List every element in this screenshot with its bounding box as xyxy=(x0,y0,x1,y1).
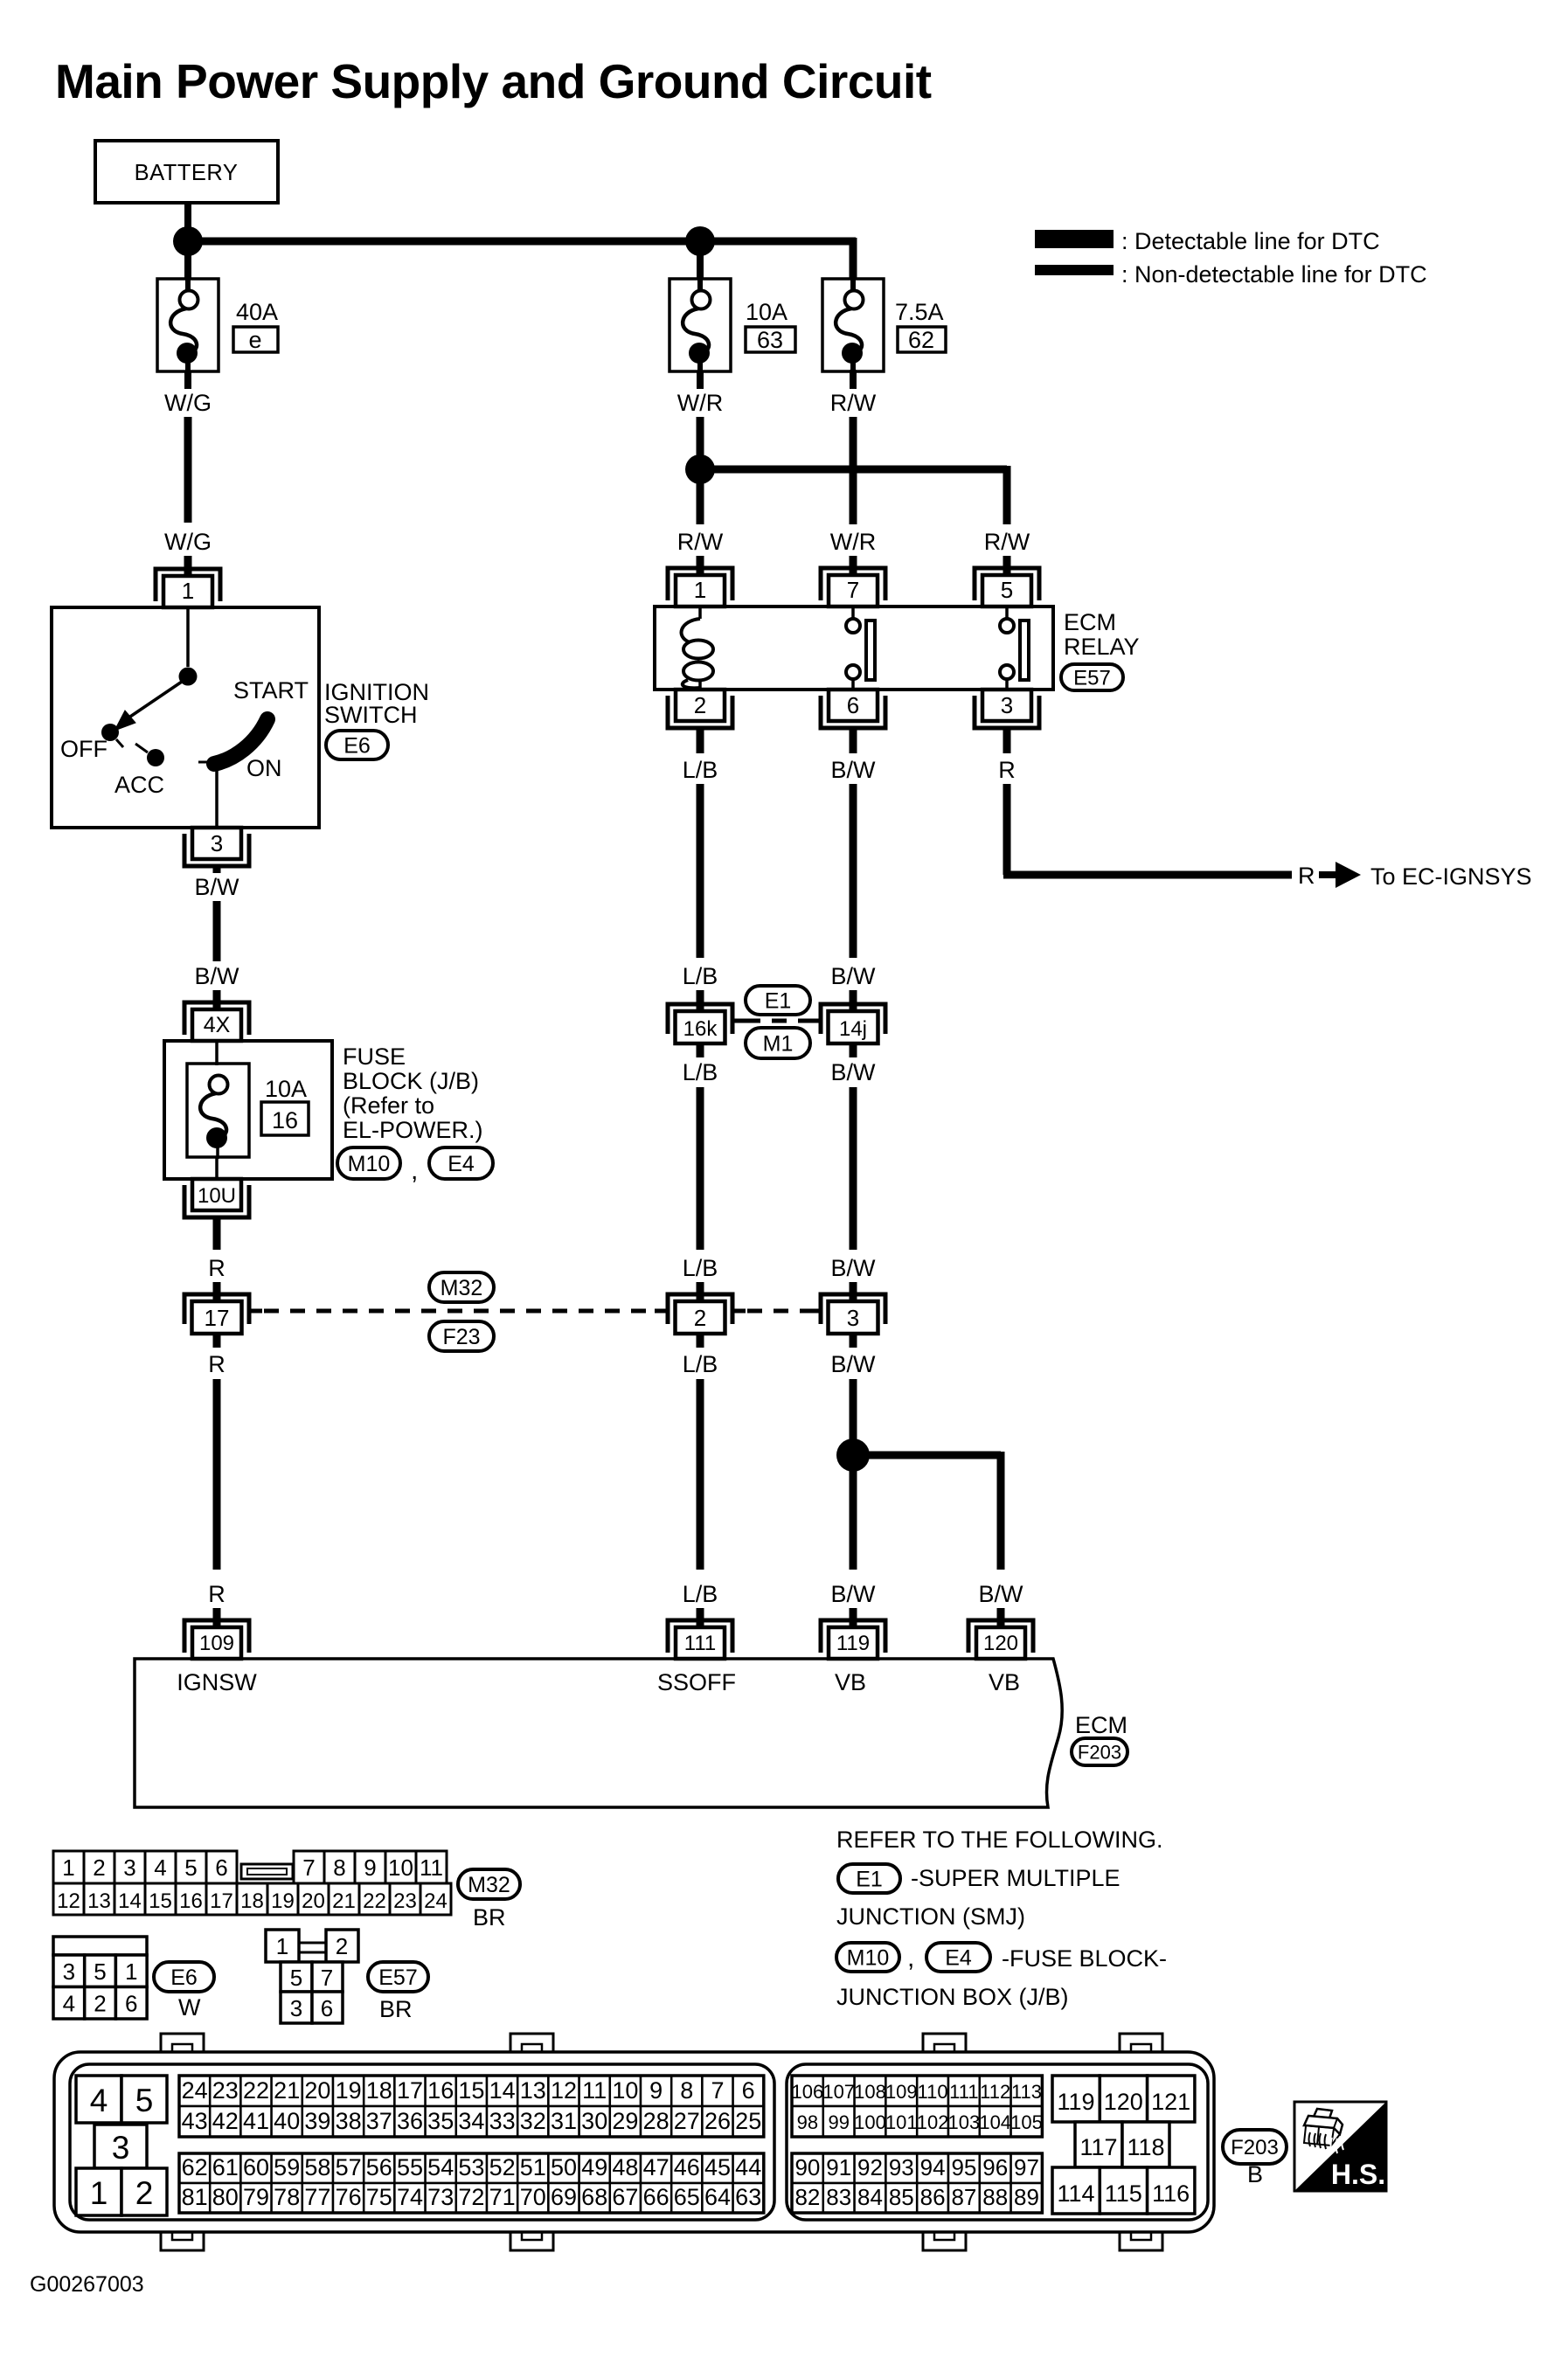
svg-text:91: 91 xyxy=(826,2154,851,2180)
legend detectable line sample xyxy=(1035,228,1380,254)
svg-text:EL-POWER.): EL-POWER.) xyxy=(343,1117,483,1143)
wire 14j out xyxy=(850,1043,857,1057)
svg-text:40: 40 xyxy=(274,2108,300,2134)
wire 10U out xyxy=(213,1217,221,1250)
node junction W/R R/W xyxy=(685,454,715,484)
svg-text:21: 21 xyxy=(332,1889,356,1913)
svg-text:101: 101 xyxy=(885,2111,918,2133)
svg-text:16: 16 xyxy=(427,2077,454,2104)
node bus junction to 10A fuse xyxy=(685,226,715,256)
svg-text:4: 4 xyxy=(90,2083,108,2118)
connector ECM pin 119 xyxy=(821,1620,885,1659)
svg-text:L/B: L/B xyxy=(683,1255,718,1281)
svg-text:68: 68 xyxy=(581,2184,607,2210)
svg-text:E1: E1 xyxy=(765,989,792,1014)
svg-text:OFF: OFF xyxy=(60,736,108,762)
wire W/G long xyxy=(184,417,192,523)
ignition common contact dot xyxy=(179,668,198,686)
svg-text:6: 6 xyxy=(847,692,859,718)
svg-text:7: 7 xyxy=(302,1854,315,1881)
svg-text:6: 6 xyxy=(742,2077,755,2104)
svg-text:77: 77 xyxy=(304,2184,330,2210)
connector SMJ 14j xyxy=(808,1004,885,1043)
wire stub to relay pin 7 xyxy=(850,556,857,579)
svg-text:65: 65 xyxy=(674,2184,700,2210)
wire relay pin6 out xyxy=(850,728,857,753)
svg-text:G00267003: G00267003 xyxy=(30,2272,144,2297)
svg-text:82: 82 xyxy=(794,2184,820,2210)
svg-text:37: 37 xyxy=(366,2108,392,2134)
svg-text:10A: 10A xyxy=(746,299,787,325)
svg-text:52: 52 xyxy=(489,2154,516,2180)
svg-text:IGNSW: IGNSW xyxy=(177,1669,257,1695)
svg-text:102: 102 xyxy=(917,2111,949,2133)
node B/W branch junction xyxy=(836,1438,870,1472)
svg-text:5: 5 xyxy=(1001,577,1013,603)
wire stub into 120 xyxy=(997,1608,1005,1629)
svg-text:84: 84 xyxy=(857,2184,883,2210)
svg-text:5: 5 xyxy=(290,1965,302,1991)
svg-text:6: 6 xyxy=(125,1991,137,2017)
svg-text:29: 29 xyxy=(612,2108,638,2134)
ECM connector main grid rows 24-6 43-25 xyxy=(179,2076,764,2137)
svg-text:13: 13 xyxy=(520,2077,546,2104)
svg-text:61: 61 xyxy=(212,2154,239,2180)
svg-text:19: 19 xyxy=(271,1889,295,1913)
connector ref oval F203 xyxy=(1072,1738,1127,1765)
svg-text:117: 117 xyxy=(1079,2134,1117,2160)
wire branch corner down xyxy=(1003,466,1011,524)
connector relay pin 3 xyxy=(975,690,1039,728)
svg-text:L/B: L/B xyxy=(683,757,718,783)
wire junction down xyxy=(697,480,704,524)
svg-text:E57: E57 xyxy=(378,1965,417,1990)
connector relay pin 2 xyxy=(668,690,732,728)
svg-text:BR: BR xyxy=(379,1996,413,2022)
svg-text:9: 9 xyxy=(364,1854,376,1881)
svg-text:2: 2 xyxy=(94,1991,106,2017)
svg-text:W/R: W/R xyxy=(677,390,723,416)
connector ECM pin 109 xyxy=(184,1620,249,1659)
svg-text:69: 69 xyxy=(551,2184,577,2210)
svg-text:62: 62 xyxy=(908,327,934,353)
svg-text:VB: VB xyxy=(835,1669,866,1695)
svg-text:-FUSE BLOCK-: -FUSE BLOCK- xyxy=(1002,1945,1167,1972)
svg-text:11: 11 xyxy=(420,1854,443,1881)
fuse 10A 63 xyxy=(670,277,731,373)
wire branch to VB 120 xyxy=(853,1452,1001,1459)
dashed line 2 to 3 xyxy=(747,1309,809,1314)
svg-text:8: 8 xyxy=(333,1854,345,1881)
connector ref oval M10 note xyxy=(836,1943,899,1972)
ignition ACC contact xyxy=(135,744,148,752)
ignition switch E6 box xyxy=(52,607,319,828)
svg-text:16: 16 xyxy=(179,1889,203,1913)
svg-text:17: 17 xyxy=(205,1305,230,1331)
svg-text:1: 1 xyxy=(125,1958,137,1985)
svg-text:19: 19 xyxy=(336,2077,362,2104)
wire to junction xyxy=(697,417,704,459)
svg-text:59: 59 xyxy=(274,2154,300,2180)
svg-text:R: R xyxy=(208,1351,225,1377)
svg-text:1: 1 xyxy=(62,1854,74,1881)
svg-text:3: 3 xyxy=(123,1854,135,1881)
wire R horizontal to EC-IGNSYS xyxy=(1003,871,1292,879)
wire 16k out xyxy=(697,1043,704,1057)
svg-text:5: 5 xyxy=(135,2083,154,2118)
svg-text:3: 3 xyxy=(112,2130,130,2166)
svg-text:3: 3 xyxy=(211,830,223,856)
ignition ON contact arc xyxy=(214,719,267,764)
node battery junction xyxy=(173,226,203,256)
svg-text:B/W: B/W xyxy=(831,757,877,783)
connector pin 1 ignition switch xyxy=(156,569,220,607)
svg-text:36: 36 xyxy=(397,2108,423,2134)
svg-text:30: 30 xyxy=(581,2108,607,2134)
svg-text:39: 39 xyxy=(304,2108,330,2134)
connector ECM pin 111 xyxy=(668,1620,732,1659)
connector ref oval E1 xyxy=(746,986,810,1015)
dashed SMJ line xyxy=(746,1019,811,1023)
svg-text:BLOCK (J/B): BLOCK (J/B) xyxy=(343,1068,479,1094)
connector ref oval M10 xyxy=(337,1147,400,1179)
svg-text:BR: BR xyxy=(473,1904,506,1931)
svg-text:76: 76 xyxy=(336,2184,362,2210)
ECM F203 box xyxy=(135,1659,1062,1807)
wire relay pin3 out xyxy=(1003,728,1011,753)
svg-text:2: 2 xyxy=(135,2175,154,2211)
svg-text:14: 14 xyxy=(118,1889,142,1913)
connector ref oval E6 face xyxy=(154,1962,214,1992)
wire 10A fuse out xyxy=(697,371,704,389)
svg-text:9: 9 xyxy=(649,2077,663,2104)
H.S. inspection mark xyxy=(1294,2102,1386,2191)
svg-text:118: 118 xyxy=(1127,2134,1164,2160)
svg-text:10A: 10A xyxy=(265,1076,307,1102)
ECM connector shell tabs xyxy=(161,2034,1162,2250)
wire 17 out xyxy=(213,1333,221,1348)
svg-text:15: 15 xyxy=(458,2077,484,2104)
ECM connector cells 114 115 116 xyxy=(1052,2167,1195,2214)
connector ref oval F23 xyxy=(429,1321,494,1351)
svg-text:M1: M1 xyxy=(763,1032,794,1057)
wire B/W left long xyxy=(213,901,221,961)
svg-text:L/B: L/B xyxy=(683,1059,718,1085)
svg-text:78: 78 xyxy=(274,2184,300,2210)
connector ref oval M32 face xyxy=(458,1869,520,1899)
wire B/W long to ECM xyxy=(850,1379,857,1570)
svg-text:R: R xyxy=(208,1255,225,1281)
svg-text:,: , xyxy=(411,1156,418,1185)
ECM connector small grid rows 90-97 82-89 xyxy=(792,2153,1042,2213)
svg-text:86: 86 xyxy=(920,2184,946,2210)
svg-text:71: 71 xyxy=(489,2184,516,2210)
svg-text:79: 79 xyxy=(243,2184,269,2210)
svg-text:100: 100 xyxy=(854,2111,886,2133)
connector ref oval E57 xyxy=(1061,664,1123,690)
svg-text:57: 57 xyxy=(336,2154,362,2180)
wire relay pin2 out xyxy=(697,728,704,753)
connector ECM pin 120 xyxy=(968,1620,1033,1659)
svg-text:51: 51 xyxy=(520,2154,546,2180)
svg-text:12: 12 xyxy=(57,1889,80,1913)
wire battery dot to 40A fuse xyxy=(184,241,191,279)
svg-text:24: 24 xyxy=(424,1889,448,1913)
connector relay pin 5 xyxy=(975,568,1039,607)
wire stub into 111 xyxy=(697,1608,704,1629)
svg-text:121: 121 xyxy=(1151,2089,1190,2115)
svg-text:W/G: W/G xyxy=(164,529,212,555)
svg-text:,: , xyxy=(907,1944,914,1972)
svg-text:7.5A: 7.5A xyxy=(895,299,944,325)
svg-text:1: 1 xyxy=(694,577,706,603)
svg-text:44: 44 xyxy=(735,2154,761,2180)
svg-text:REFER TO THE FOLLOWING.: REFER TO THE FOLLOWING. xyxy=(836,1827,1163,1853)
svg-text:R: R xyxy=(998,757,1016,783)
wire stub into conn 2 xyxy=(697,1282,704,1304)
svg-text:10: 10 xyxy=(612,2077,638,2104)
svg-text:105: 105 xyxy=(1010,2111,1043,2133)
wire branch horizontal xyxy=(700,466,1007,474)
connector ref oval M1 xyxy=(746,1028,810,1058)
svg-text:5: 5 xyxy=(184,1854,197,1881)
relay coil xyxy=(682,607,713,690)
svg-text:26: 26 xyxy=(704,2108,731,2134)
svg-text:1: 1 xyxy=(90,2175,108,2211)
svg-text:ON: ON xyxy=(246,755,282,781)
ECM connector outer shell xyxy=(54,2052,1214,2232)
svg-text:67: 67 xyxy=(612,2184,638,2210)
svg-text:106: 106 xyxy=(792,2081,824,2103)
svg-text:1: 1 xyxy=(276,1933,288,1959)
svg-text:31: 31 xyxy=(551,2108,577,2134)
svg-text:2: 2 xyxy=(694,692,706,718)
svg-text:49: 49 xyxy=(581,2154,607,2180)
fuse number box 62 xyxy=(898,327,946,353)
svg-text:63: 63 xyxy=(757,327,783,353)
svg-text:50: 50 xyxy=(551,2154,577,2180)
svg-text:B/W: B/W xyxy=(831,1351,877,1377)
svg-text:40A: 40A xyxy=(236,299,278,325)
connector face view E6 xyxy=(53,1937,147,2019)
svg-text:112: 112 xyxy=(980,2081,1010,2103)
svg-text:E4: E4 xyxy=(448,1152,475,1176)
svg-text:F203: F203 xyxy=(1078,1741,1121,1763)
connector 3 xyxy=(808,1294,885,1334)
svg-text:109: 109 xyxy=(199,1632,234,1655)
svg-text:JUNCTION BOX (J/B): JUNCTION BOX (J/B) xyxy=(836,1984,1069,2010)
svg-text:3: 3 xyxy=(290,1995,302,2021)
svg-text:70: 70 xyxy=(520,2184,546,2210)
relay contact pins 7-6 xyxy=(846,607,875,690)
svg-text:ECM: ECM xyxy=(1075,1712,1127,1738)
svg-text:(Refer to: (Refer to xyxy=(343,1092,434,1119)
svg-text:4: 4 xyxy=(63,1991,75,2017)
svg-text:2: 2 xyxy=(694,1305,706,1331)
svg-text:98: 98 xyxy=(797,2111,818,2133)
wire stub into 109 xyxy=(213,1608,221,1629)
svg-text:: Non-detectable line for DTC: : Non-detectable line for DTC xyxy=(1121,261,1427,288)
svg-text:14j: 14j xyxy=(839,1017,867,1041)
svg-text:F203: F203 xyxy=(1231,2136,1279,2159)
svg-text:94: 94 xyxy=(920,2154,946,2180)
svg-text:M32: M32 xyxy=(468,1873,510,1897)
svg-text:56: 56 xyxy=(366,2154,392,2180)
svg-text:SSOFF: SSOFF xyxy=(657,1669,736,1695)
svg-text:ECM: ECM xyxy=(1064,609,1116,635)
svg-text:L/B: L/B xyxy=(683,963,718,989)
svg-text:10: 10 xyxy=(388,1854,413,1881)
connector ref oval E4 note xyxy=(926,1943,990,1972)
wire R to corner xyxy=(1003,784,1011,875)
svg-text:80: 80 xyxy=(212,2184,239,2210)
ECM connector main grid rows 62-44 81-63 xyxy=(179,2153,764,2213)
svg-text:73: 73 xyxy=(427,2184,454,2210)
svg-text:83: 83 xyxy=(826,2184,851,2210)
svg-text:108: 108 xyxy=(854,2081,886,2103)
svg-text:17: 17 xyxy=(397,2077,423,2104)
svg-text:75: 75 xyxy=(366,2184,392,2210)
svg-text:47: 47 xyxy=(643,2154,670,2180)
wire inside fuse block xyxy=(215,1041,219,1065)
connector ref oval E1 note xyxy=(838,1864,900,1893)
wire L/B long xyxy=(697,784,704,958)
svg-text:13: 13 xyxy=(87,1889,111,1913)
ignition OFF contact xyxy=(101,724,119,741)
svg-text:H.S.: H.S. xyxy=(1331,2159,1385,2190)
svg-text:17: 17 xyxy=(210,1889,233,1913)
wire stub into 16k xyxy=(697,990,704,1014)
svg-text:7: 7 xyxy=(711,2077,724,2104)
wire 7.5A fuse out xyxy=(850,370,857,389)
ECM relay E57 box xyxy=(655,607,1053,690)
wire battery to bus xyxy=(184,203,191,241)
svg-text:119: 119 xyxy=(836,1632,870,1655)
connector SMJ 16k xyxy=(668,1004,746,1043)
svg-text:110: 110 xyxy=(918,2081,948,2103)
svg-text:99: 99 xyxy=(828,2111,849,2133)
svg-text:R/W: R/W xyxy=(677,529,724,555)
svg-text:55: 55 xyxy=(397,2154,423,2180)
svg-text:-SUPER MULTIPLE: -SUPER MULTIPLE xyxy=(911,1865,1120,1891)
svg-text:109: 109 xyxy=(885,2081,918,2103)
connector pin 3 ignition switch xyxy=(184,828,249,866)
svg-text:B/W: B/W xyxy=(831,1255,877,1281)
svg-text:89: 89 xyxy=(1014,2184,1039,2210)
svg-text:ACC: ACC xyxy=(114,772,164,798)
wire stub into 17 xyxy=(213,1282,221,1304)
svg-text:43: 43 xyxy=(182,2108,208,2134)
svg-text:8: 8 xyxy=(680,2077,693,2104)
svg-text:85: 85 xyxy=(889,2184,914,2210)
wire inside ignition pin1 xyxy=(186,607,190,667)
ECM connector left key cells 4 5 3 1 2 xyxy=(76,2076,167,2215)
svg-text:45: 45 xyxy=(704,2154,731,2180)
svg-text:15: 15 xyxy=(149,1889,172,1913)
svg-text:E1: E1 xyxy=(856,1868,883,1892)
fuse number box 63 xyxy=(746,327,795,353)
svg-text:JUNCTION (SMJ): JUNCTION (SMJ) xyxy=(836,1903,1025,1930)
svg-text:41: 41 xyxy=(243,2108,269,2134)
svg-text:6: 6 xyxy=(321,1995,333,2021)
svg-text:START: START xyxy=(233,677,309,704)
svg-text:113: 113 xyxy=(1011,2081,1042,2103)
svg-text:63: 63 xyxy=(735,2184,761,2210)
svg-text:L/B: L/B xyxy=(683,1351,718,1377)
svg-text:L/B: L/B xyxy=(683,1581,718,1607)
svg-text:R/W: R/W xyxy=(984,529,1030,555)
ECM connector small grid rows 106-113 98-105 xyxy=(792,2076,1043,2137)
svg-text:3: 3 xyxy=(847,1305,859,1331)
svg-text:To EC-IGNSYS: To EC-IGNSYS xyxy=(1370,863,1532,890)
svg-text:6: 6 xyxy=(215,1854,227,1881)
svg-text:B/W: B/W xyxy=(831,1581,877,1607)
svg-text:1: 1 xyxy=(182,578,194,604)
svg-text:90: 90 xyxy=(794,2154,820,2180)
svg-text:W: W xyxy=(178,1994,201,2021)
connector relay pin 7 xyxy=(821,568,885,607)
svg-text:7: 7 xyxy=(321,1965,333,1991)
svg-text:58: 58 xyxy=(304,2154,330,2180)
fuse block J/B box xyxy=(164,1041,332,1179)
svg-text:B/W: B/W xyxy=(831,1059,877,1085)
svg-text:62: 62 xyxy=(182,2154,208,2180)
svg-text:27: 27 xyxy=(674,2108,700,2134)
svg-text:60: 60 xyxy=(243,2154,269,2180)
fuse number box e xyxy=(233,327,278,353)
svg-text:18: 18 xyxy=(366,2077,392,2104)
wire main bus xyxy=(188,238,856,246)
fuse 40A e xyxy=(157,277,219,373)
svg-text:34: 34 xyxy=(458,2108,484,2134)
wire inside ignition pin3 xyxy=(215,767,219,828)
svg-text:E57: E57 xyxy=(1073,667,1111,690)
svg-text:VB: VB xyxy=(989,1669,1020,1695)
svg-text:48: 48 xyxy=(612,2154,638,2180)
svg-text:72: 72 xyxy=(458,2184,484,2210)
connector face view M32 xyxy=(53,1851,451,1915)
svg-text:2: 2 xyxy=(336,1933,348,1959)
svg-text:120: 120 xyxy=(1104,2089,1143,2115)
legend non-detectable line sample xyxy=(1035,261,1427,288)
svg-text:23: 23 xyxy=(212,2077,239,2104)
wire ignition pin3 out xyxy=(213,866,221,873)
svg-text:66: 66 xyxy=(643,2184,670,2210)
svg-text:93: 93 xyxy=(889,2154,914,2180)
svg-text:53: 53 xyxy=(458,2154,484,2180)
connector 2 xyxy=(655,1294,746,1334)
svg-text:33: 33 xyxy=(489,2108,516,2134)
svg-text:103: 103 xyxy=(948,2111,981,2133)
svg-text:38: 38 xyxy=(336,2108,362,2134)
wire stub into 119 xyxy=(850,1608,857,1629)
svg-text:M10: M10 xyxy=(348,1152,391,1176)
svg-text:111: 111 xyxy=(684,1632,716,1655)
svg-text:W/G: W/G xyxy=(164,390,212,416)
svg-text:7: 7 xyxy=(847,577,859,603)
svg-text:R/W: R/W xyxy=(830,390,877,416)
wire W/G stub to ignition pin 1 xyxy=(184,556,192,579)
wire stub into conn 3 xyxy=(850,1282,857,1304)
svg-text:92: 92 xyxy=(857,2154,883,2180)
wire crossing down xyxy=(850,417,857,524)
connector 10U fuse block xyxy=(184,1179,249,1217)
svg-text:B/W: B/W xyxy=(831,963,877,989)
svg-text:B/W: B/W xyxy=(195,874,240,900)
svg-text:R: R xyxy=(1298,863,1315,889)
svg-text:24: 24 xyxy=(182,2077,208,2104)
svg-text:42: 42 xyxy=(212,2108,239,2134)
